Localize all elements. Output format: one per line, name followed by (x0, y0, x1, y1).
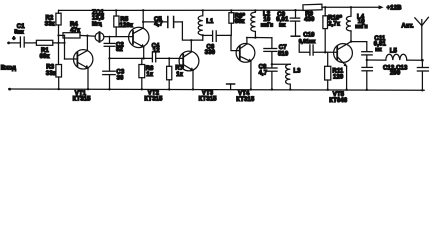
svg-text:82: 82 (116, 47, 123, 53)
transistor VT4 (236, 38, 255, 103)
svg-text:VT3: VT3 (202, 90, 214, 96)
svg-text:1к: 1к (146, 72, 153, 78)
svg-text:1к: 1к (176, 72, 183, 78)
ground C9 (291, 35, 300, 37)
transistor VT3 (179, 39, 217, 102)
wire C5 to collector node (182, 22, 202, 40)
capacitor C4 (152, 43, 184, 61)
svg-text:5мк: 5мк (14, 29, 24, 35)
capacitor C5 (142, 17, 182, 28)
svg-text:4,7: 4,7 (154, 22, 163, 28)
svg-text:+: + (12, 36, 15, 42)
svg-text:КТ315: КТ315 (199, 97, 218, 103)
capacitor C8 (259, 64, 277, 90)
svg-text:L1: L1 (206, 19, 214, 25)
svg-text:510: 510 (278, 51, 289, 57)
svg-text:КТ315: КТ315 (236, 97, 255, 103)
inductor L1 (198, 9, 214, 40)
svg-text:68к: 68к (235, 19, 245, 25)
svg-text:120к: 120к (120, 23, 133, 29)
svg-text:0,01мк: 0,01мк (299, 39, 316, 45)
capacitor C9 (276, 9, 299, 36)
wire to VT4 base (231, 35, 240, 50)
svg-text:КТ315: КТ315 (73, 97, 92, 103)
resistor R10 (323, 6, 343, 53)
capacitor C2 (104, 36, 124, 58)
svg-text:36: 36 (117, 75, 124, 81)
resistor R3 (46, 65, 62, 91)
transistor VT5 (329, 31, 352, 104)
wire bias node verticals (57, 34, 77, 64)
svg-text:мк: мк (279, 22, 286, 28)
inductor L4 (346, 6, 367, 31)
svg-text:мкГн: мкГн (355, 24, 367, 30)
inductor L3 (271, 63, 301, 91)
resistor R5 (114, 9, 133, 36)
node +12V arrow (379, 5, 402, 12)
resistor R2 (45, 10, 61, 43)
svg-text:47к: 47к (70, 28, 80, 34)
svg-text:Ант.: Ант. (401, 24, 414, 30)
wire L1 tap to C6 (202, 34, 213, 36)
resistor R7 (167, 57, 184, 90)
inductor L2 (251, 9, 273, 39)
svg-text:Мгц: Мгц (92, 21, 102, 27)
crystal ZQ1 (92, 10, 105, 42)
node input terminal (1, 42, 16, 91)
wire ground rail (9, 89, 425, 90)
svg-text:L3: L3 (293, 69, 301, 75)
wire top power rail left section (59, 9, 304, 11)
svg-text:мкГн: мкГн (261, 23, 273, 29)
transistor VT1 (73, 35, 93, 103)
svg-text:КТ315: КТ315 (144, 97, 163, 103)
antenna (401, 17, 428, 60)
transistor VT2 (129, 9, 163, 102)
resistor R11 (325, 52, 344, 91)
capacitor C12 (362, 60, 408, 91)
svg-text:Вход: Вход (1, 65, 16, 71)
svg-text:200: 200 (390, 71, 401, 77)
svg-text:330: 330 (205, 50, 216, 56)
svg-text:120: 120 (333, 75, 344, 81)
svg-text:КТ646: КТ646 (329, 98, 348, 104)
svg-text:33к: 33к (46, 71, 56, 77)
wire emitter tap (110, 57, 153, 59)
resistor R1 (36, 40, 64, 60)
svg-text:C8: C8 (259, 64, 267, 70)
svg-text:430: 430 (304, 17, 315, 23)
capacitor C1 (12, 24, 25, 47)
svg-text:+12В: +12В (387, 6, 402, 12)
resistor R8 (229, 9, 246, 35)
svg-text:2,7к: 2,7к (328, 21, 340, 27)
svg-text:мк: мк (375, 47, 382, 53)
svg-text:C10: C10 (303, 33, 315, 39)
capacitor C3 (103, 57, 125, 90)
resistor R9 (303, 4, 379, 23)
wire input to C1 (9, 42, 20, 44)
capacitor C13 (417, 60, 428, 91)
svg-text:4,7: 4,7 (259, 71, 268, 77)
capacitor C10 (299, 33, 337, 56)
svg-text:R3: R3 (46, 65, 54, 71)
svg-text:68к: 68к (40, 54, 50, 60)
resistor R4 (63, 22, 95, 38)
capacitor C6 (205, 31, 231, 56)
svg-text:C7: C7 (279, 45, 287, 51)
capacitor C7 (264, 38, 289, 68)
wire VT4 collector node (247, 37, 272, 39)
capacitor C11 (350, 36, 387, 60)
ground chassis symbol (227, 84, 235, 90)
svg-text:VT2: VT2 (148, 90, 160, 96)
wire output line with inductor L5 (366, 48, 424, 61)
resistor R6 (139, 58, 154, 90)
svg-text:12: 12 (153, 48, 160, 54)
wire C1 to R1 (24, 42, 36, 44)
svg-text:33к: 33к (45, 21, 55, 27)
wire crystal to VT2 base (104, 36, 133, 38)
svg-text:L5: L5 (390, 48, 398, 54)
